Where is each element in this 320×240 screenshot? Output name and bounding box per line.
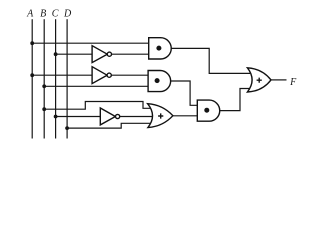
AND gate G3 bbox=[197, 100, 219, 121]
wire inverter U3 output to OR G4 middle input bbox=[120, 116, 154, 118]
AND gate G2 bbox=[148, 71, 171, 92]
wire OR G4 output to AND G3 bottom input bbox=[173, 115, 197, 117]
OR gate G4 bbox=[148, 104, 173, 128]
wire B to AND G2 bottom input bbox=[44, 85, 148, 87]
svg-text:A: A bbox=[26, 9, 34, 20]
svg-text:B: B bbox=[40, 9, 46, 20]
OR gate G5 bbox=[247, 68, 271, 92]
wire input line C bbox=[55, 19, 57, 138]
wire inverter U2 output to AND G2 top input bbox=[111, 74, 148, 76]
inverter U1 bbox=[92, 46, 107, 63]
node junction B2 bbox=[42, 107, 46, 111]
wire A to inverter U2 input bbox=[32, 74, 92, 76]
node junction A1 bbox=[30, 41, 34, 45]
node junction B1 bbox=[42, 84, 46, 88]
OR G4 plus symbol bbox=[158, 113, 163, 118]
AND G3 dot symbol bbox=[204, 108, 209, 113]
AND gate G1 bbox=[149, 38, 172, 59]
wire AND G3 output to OR G5 bottom input bbox=[220, 89, 250, 111]
wire AND G1 output to OR G5 top input bbox=[171, 48, 250, 73]
node junction D1 bbox=[65, 126, 69, 130]
node junction A2 bbox=[30, 73, 34, 77]
wire C to inverter U1 input bbox=[56, 53, 93, 55]
AND G2 dot symbol bbox=[155, 78, 160, 83]
wire C to inverter U3 input bbox=[56, 116, 101, 118]
wire input line B bbox=[43, 19, 45, 138]
wire AND G2 output to AND G3 top input bbox=[171, 81, 198, 105]
wire input line A bbox=[31, 19, 33, 138]
inverter U3 bbox=[100, 108, 115, 125]
node junction C1 bbox=[54, 52, 58, 56]
wire input line D bbox=[66, 19, 68, 138]
wire D to OR G4 bottom input bbox=[67, 123, 152, 128]
OR G5 plus symbol bbox=[257, 78, 262, 83]
svg-text:F: F bbox=[289, 77, 297, 88]
wire OR G5 output to F bbox=[271, 79, 287, 81]
wire B to OR G4 top input bbox=[44, 102, 151, 110]
svg-text:D: D bbox=[63, 9, 72, 20]
node junction C2 bbox=[54, 115, 58, 119]
svg-text:C: C bbox=[52, 9, 59, 20]
inverter U2 bbox=[92, 67, 107, 84]
wire inverter U1 output to AND G1 bottom input bbox=[112, 53, 149, 55]
AND G1 dot symbol bbox=[156, 46, 161, 51]
wire A to AND G1 top input bbox=[32, 42, 149, 44]
